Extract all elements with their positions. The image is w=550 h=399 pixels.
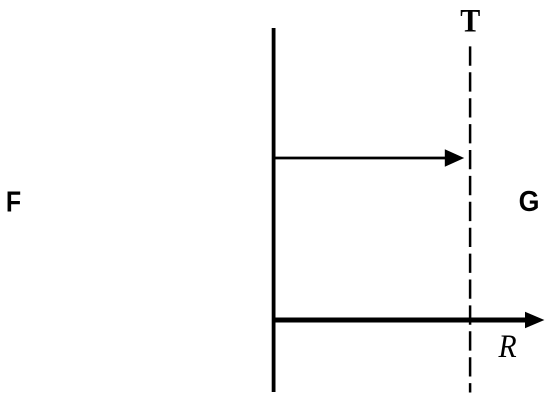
svg-text:F: F xyxy=(6,186,21,218)
wire: thin horizontal arrow shaft xyxy=(273,157,446,160)
svg-text:T: T xyxy=(460,2,480,39)
svg-text:R: R xyxy=(498,327,517,364)
thick arrow head xyxy=(525,312,544,329)
thin arrow head xyxy=(445,149,464,167)
svg-text:G: G xyxy=(519,185,540,217)
wire: solid vertical axis line xyxy=(272,28,276,392)
wire: dashed vertical line T xyxy=(469,46,472,392)
wire: thick horizontal arrow shaft R xyxy=(273,318,526,323)
